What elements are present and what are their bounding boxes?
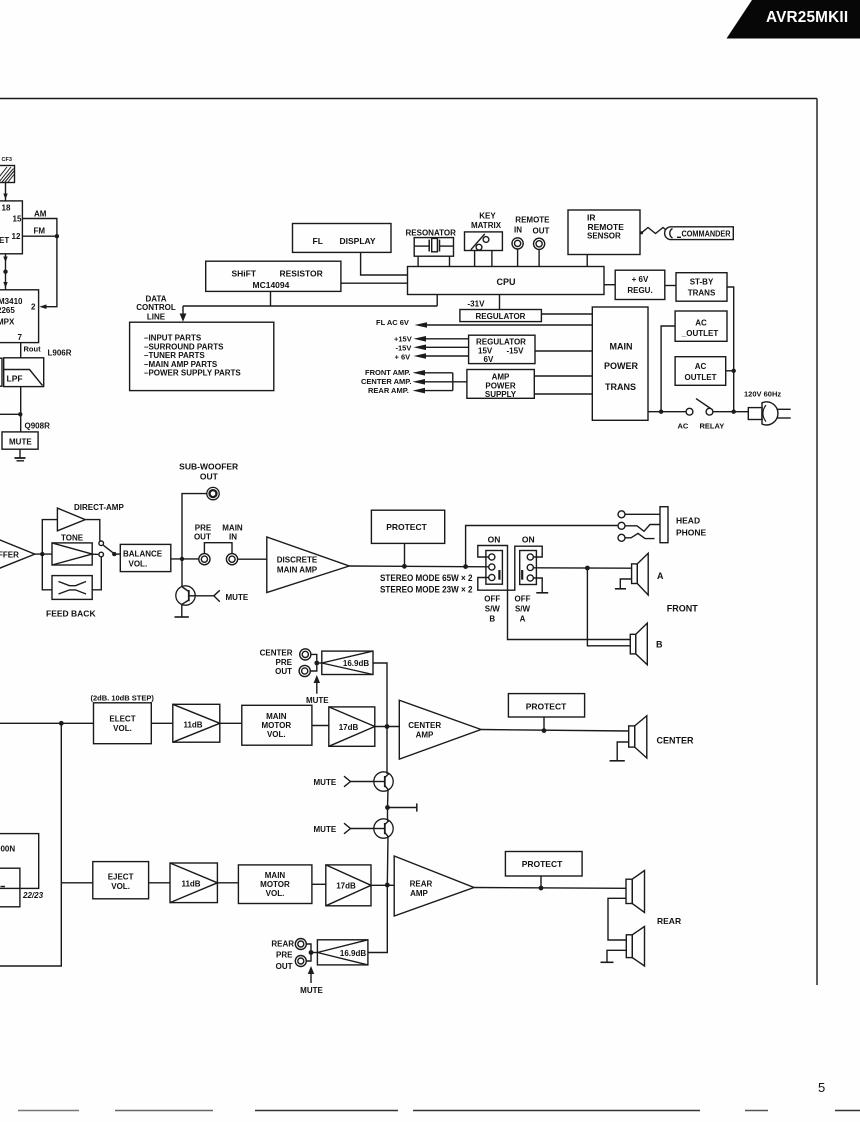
svg-text:FL: FL [313, 236, 323, 246]
svg-text:IN: IN [514, 225, 522, 234]
svg-text:MATRIX: MATRIX [471, 221, 502, 230]
svg-text:ON: ON [488, 535, 501, 545]
svg-text:PHONE: PHONE [676, 527, 707, 537]
wire q1 to junction [387, 790, 390, 808]
speaker REAR 2 [626, 927, 644, 967]
svg-text:FRONT: FRONT [667, 603, 698, 613]
svg-text:OUT: OUT [194, 533, 211, 542]
svg-text:L906R: L906R [48, 349, 72, 358]
svg-text:EJECT: EJECT [108, 873, 134, 882]
border frame right line [816, 99, 818, 986]
svg-text:DISCRETE: DISCRETE [277, 555, 318, 564]
head phone label [676, 515, 707, 537]
svg-text:REMOTE: REMOTE [588, 222, 625, 232]
ceramic filter CF3 [0, 166, 15, 183]
wire elect vol to 11dB [151, 722, 173, 724]
transistor mute Q1 [374, 772, 393, 791]
svg-text:S/W: S/W [515, 604, 531, 613]
wire FM pin12 [22, 235, 57, 237]
node stereo mode labels [380, 573, 473, 595]
protect block center [508, 694, 584, 717]
attenuator 16.9dB rear [317, 940, 368, 965]
junction between mutes [385, 805, 390, 810]
svg-text:AMP: AMP [492, 372, 510, 381]
wire LPF to mute [20, 387, 22, 432]
wire mute q1 control with chevron [344, 776, 374, 787]
svg-text:OUT: OUT [276, 962, 293, 971]
wire junction test tap [388, 803, 417, 811]
remote commander unit [665, 227, 734, 240]
svg-text:SENSOR: SENSOR [587, 231, 621, 240]
wire +6V regu to st-by trans [665, 285, 676, 287]
wire speaker A ground branch [620, 579, 631, 588]
transformer MAIN POWER TRANS [592, 307, 648, 420]
svg-text:AMP: AMP [416, 730, 434, 739]
surround IC second box (cut off) [0, 868, 20, 907]
wire balance node down to mute transistor [181, 559, 183, 587]
wire remote out to CPU [538, 249, 540, 266]
svg-text:AC: AC [695, 362, 707, 371]
svg-text:CF3: CF3 [2, 157, 12, 163]
svg-text:PROTECT: PROTECT [386, 522, 427, 532]
svg-text:+ 6V: + 6V [632, 275, 649, 284]
shift register MC14094 [206, 261, 341, 291]
wire +6V with arrow [414, 353, 469, 359]
wire data control line [183, 305, 437, 307]
off s/w b label [484, 594, 500, 623]
amp 17dB center [329, 707, 375, 746]
svg-text:S/W: S/W [485, 604, 501, 613]
wire center amp output [481, 730, 629, 732]
wire 11dB to motor vol rear [217, 882, 238, 884]
wire direct amp to switch [85, 520, 100, 541]
svg-text:RESONATOR: RESONATOR [406, 229, 457, 238]
svg-text:RELAY: RELAY [700, 421, 725, 430]
svg-text:MUTE: MUTE [9, 438, 32, 447]
wire shift register to CPU [341, 282, 408, 284]
remote in/out labels [514, 215, 550, 235]
svg-text:MUTE: MUTE [306, 696, 329, 705]
svg-text:–MAIN AMP PARTS: –MAIN AMP PARTS [144, 360, 218, 369]
svg-text:A: A [657, 571, 664, 581]
svg-text:REGULATOR: REGULATOR [476, 337, 526, 346]
wire junction down to speaker B [587, 568, 630, 646]
svg-text:DIRECT-AMP: DIRECT-AMP [74, 503, 124, 512]
wire amp supply bracket [452, 373, 454, 391]
svg-text:CPU: CPU [496, 277, 515, 287]
svg-text:HEAD: HEAD [676, 515, 700, 525]
svg-text:2: 2 [31, 303, 36, 312]
wire switch A on-bracket [508, 546, 543, 590]
microprocessor CPU [408, 267, 605, 295]
wire to feedback [42, 554, 52, 590]
svg-text:CENTER: CENTER [408, 721, 441, 730]
wire amp supply to main trans upper [534, 375, 592, 377]
wire zigzag IR link to commander [640, 228, 666, 235]
op-amp direct amp [57, 508, 85, 531]
svg-text:MAIN: MAIN [266, 712, 287, 721]
ground below mute [15, 449, 26, 461]
svg-text:OUT: OUT [533, 226, 550, 235]
mute arrow center pre [306, 675, 329, 705]
svg-text:PROTECT: PROTECT [526, 702, 567, 712]
svg-text:POWER: POWER [485, 381, 515, 390]
jack REMOTE OUT [534, 238, 545, 249]
wire resonator to CPU left [417, 256, 419, 266]
svg-text:POWER: POWER [604, 361, 639, 371]
model label AVR25MKII [727, 0, 860, 39]
wire motor vol to 17dB rear [312, 883, 326, 885]
svg-text:SUPPLY: SUPPLY [485, 390, 517, 399]
svg-text:MUTE: MUTE [226, 593, 249, 602]
svg-text:ET: ET [0, 236, 9, 245]
svg-text:-31V: -31V [468, 299, 486, 308]
wire switch A to speaker A [533, 567, 631, 569]
wire main in to amp [238, 558, 267, 560]
wire transistor to ground [181, 604, 183, 616]
volume ELECT VOL. [94, 703, 152, 744]
svg-text:MUTE: MUTE [300, 986, 323, 995]
junction protect center [542, 728, 547, 733]
transistor mute Q2 [374, 819, 393, 838]
svg-text:22/23: 22/23 [22, 891, 44, 900]
feedback block [52, 576, 92, 600]
power supply AMP POWER SUPPLY [467, 370, 534, 400]
svg-text:16.9dB: 16.9dB [343, 659, 369, 668]
svg-text:15: 15 [13, 215, 22, 224]
wire motor vol to 17dB [312, 725, 329, 727]
svg-text:B: B [489, 614, 495, 623]
protect block rear [505, 852, 582, 877]
wire protect to output [404, 543, 406, 566]
wire tuner IC to MPX with arrows [3, 254, 7, 290]
ground rear speaker [601, 961, 614, 963]
svg-text:(2dB. 10dB STEP): (2dB. 10dB STEP) [91, 693, 155, 702]
wire left bus down [0, 723, 61, 966]
junction outlet branch [659, 410, 663, 414]
wire subwoofer to balance node [182, 494, 207, 559]
junction headphone branch [463, 564, 468, 569]
wire arrow into parts box [180, 306, 187, 322]
svg-text:LINE: LINE [147, 312, 166, 321]
wire amp supply to main trans lower [534, 393, 592, 395]
svg-text:17dB: 17dB [339, 723, 359, 732]
ground speaker A [615, 588, 626, 590]
second LPF box (cut off at edge) [0, 358, 2, 386]
svg-text:ELECT: ELECT [109, 715, 135, 724]
speaker CENTER [629, 716, 647, 758]
AC plug [748, 402, 790, 425]
junction main vertical / center amp [385, 724, 390, 729]
svg-text:–POWER SUPPLY PARTS: –POWER SUPPLY PARTS [144, 369, 241, 378]
svg-text:TRANS: TRANS [605, 382, 636, 392]
key matrix label [471, 212, 502, 230]
transistor front mute [176, 586, 195, 605]
wire front amp arrow [413, 370, 453, 376]
volume BALANCE VOL. [120, 544, 171, 571]
data control parts list box [130, 322, 274, 390]
border frame top line [0, 98, 817, 100]
svg-text:–SURROUND PARTS: –SURROUND PARTS [144, 342, 224, 351]
svg-text:+15V: +15V [394, 334, 412, 343]
wire regulator to main trans [535, 350, 592, 352]
svg-text:16.9dB: 16.9dB [340, 949, 366, 958]
jack PRE OUT [199, 554, 210, 565]
wire eject vol to 11dB [149, 882, 170, 884]
wire balance to pre out [171, 558, 199, 560]
svg-text:AVR25MKII: AVR25MKII [766, 9, 848, 26]
svg-text:7: 7 [18, 333, 23, 342]
svg-text:REMOTE: REMOTE [515, 215, 550, 224]
switch direct/tone [99, 541, 114, 557]
wire FL display to CPU [361, 252, 408, 275]
svg-text:FFER: FFER [0, 550, 19, 559]
tone control block [52, 543, 92, 565]
svg-text:Rout: Rout [24, 345, 42, 354]
wire key matrix to CPU left [474, 251, 476, 267]
ground front mute [175, 616, 189, 618]
center pre out labels [260, 649, 293, 676]
svg-text:_OUTLET: _OUTLET [681, 329, 719, 338]
ac outlet upper [675, 311, 727, 341]
junction subwoofer/mute node [180, 557, 184, 561]
svg-text:VOL.: VOL. [267, 730, 286, 739]
svg-text:IN: IN [229, 533, 237, 542]
wire -15V with arrow [414, 345, 469, 351]
wire st-by trans to AC line [727, 287, 734, 412]
wire junction to mute Q2 [387, 808, 389, 821]
wire resonator to CPU right [449, 256, 451, 266]
wire center speaker ground branch [617, 742, 629, 760]
svg-text:11dB: 11dB [181, 880, 200, 889]
wire to direct-amp [42, 520, 57, 555]
wire CPU to -31V regulator [499, 295, 501, 310]
jack rear pre out lower [295, 956, 306, 967]
wire q2 down rear section [386, 837, 389, 885]
wire jacks to attenuator [310, 654, 321, 671]
svg-text:DISPLAY: DISPLAY [340, 236, 376, 246]
svg-text:REAR AMP.: REAR AMP. [368, 386, 409, 395]
wire headphone tip [625, 513, 660, 515]
volume EJECT VOL. [93, 862, 149, 899]
svg-text:VOL.: VOL. [266, 889, 285, 898]
svg-text:000N: 000N [0, 844, 15, 853]
wire FL AC 6V with arrow [415, 322, 593, 328]
svg-text:AC: AC [678, 421, 689, 430]
wire main amp output [349, 565, 489, 568]
wire main vertical to mute Q1 [386, 727, 388, 774]
amp 11dB rear [170, 863, 217, 903]
svg-text:VOL.: VOL. [129, 560, 148, 569]
svg-text:MC14094: MC14094 [253, 280, 290, 290]
ground switch A [536, 592, 548, 594]
svg-text:MAIN: MAIN [610, 342, 633, 352]
wire shift register to data line [270, 291, 272, 306]
svg-text:-15V: -15V [396, 343, 412, 352]
junction center pre node [314, 661, 319, 666]
junction st-by/outlet [732, 369, 736, 373]
ac outlet lower [675, 357, 726, 386]
svg-text:MAIN: MAIN [222, 523, 243, 532]
speaker A [632, 553, 649, 595]
svg-text:TONE: TONE [61, 533, 84, 542]
wire relay to plug [713, 411, 748, 413]
svg-text:17dB: 17dB [336, 882, 356, 891]
protect block front [371, 510, 444, 543]
wire -31V regulator to main trans [541, 313, 592, 315]
svg-text:FM: FM [34, 227, 46, 236]
svg-text:–INPUT PARTS: –INPUT PARTS [144, 334, 202, 343]
op-amp buffer (cut off) [0, 530, 35, 579]
wire center amp arrow [413, 379, 467, 385]
svg-text:OFF: OFF [515, 594, 531, 603]
wire feedback to tone node [92, 557, 101, 590]
wire rear speaker 2 ground branch [607, 950, 626, 962]
junction protect rear [539, 886, 544, 891]
junction switch common [112, 552, 116, 556]
jack rear pre out upper [295, 939, 306, 950]
node DATA CONTROL LINE label [136, 294, 176, 321]
svg-text:FRONT AMP.: FRONT AMP. [365, 368, 410, 377]
wire IR sensor to CPU [586, 255, 588, 267]
jack SUB-WOOFER OUT [207, 487, 219, 499]
svg-text:IR: IR [587, 212, 596, 222]
speaker REAR 1 [626, 871, 645, 913]
pre out / main in labels [194, 523, 243, 541]
wire protect center drop [543, 717, 545, 731]
jack headphone contacts [618, 511, 625, 542]
svg-text:18: 18 [2, 204, 11, 213]
wire +15V with arrow [414, 336, 469, 342]
wire from page edge to mute node [0, 413, 21, 415]
wire headphone contact spring lower [625, 533, 655, 538]
wire mute control with chevron [195, 590, 220, 601]
jack center pre out lower [299, 665, 310, 676]
speaker B [630, 623, 647, 665]
wire pre out to main in jumper [204, 543, 232, 554]
wire CPU to data line [436, 295, 438, 307]
svg-text:OUT: OUT [275, 667, 292, 676]
svg-text:AMP: AMP [410, 889, 428, 898]
rear pre out labels [271, 939, 294, 971]
svg-text:AM: AM [34, 210, 47, 219]
junction protect node [402, 564, 407, 569]
switch speaker A [520, 551, 537, 585]
mute arrow rear pre [300, 966, 323, 995]
amp 17dB rear [326, 865, 371, 906]
svg-text:OUT: OUT [200, 471, 219, 481]
wire rear attenuator to main vertical [368, 885, 387, 953]
svg-text:6V: 6V [484, 355, 494, 364]
wire switch B on-bracket [478, 546, 508, 591]
regulator 15V/-15V/6V [469, 335, 535, 364]
op-amp DISCRETE MAIN AMP [267, 537, 349, 593]
mute block Q908R [2, 432, 38, 449]
wire MPX pin7 to LPF [20, 343, 22, 358]
wire AC mains line [648, 411, 686, 413]
wire to balance vol [114, 553, 120, 555]
wire switch A ground pin [533, 578, 542, 592]
svg-text:RESISTOR: RESISTOR [280, 269, 323, 279]
svg-text:CONTROL: CONTROL [136, 303, 176, 312]
svg-text:MAIN AMP: MAIN AMP [277, 565, 318, 574]
wire key matrix to CPU right [491, 251, 493, 267]
svg-text:M3410: M3410 [0, 297, 23, 306]
svg-text:REGU.: REGU. [627, 286, 652, 295]
junction rear pre node [309, 950, 314, 955]
junction on tuner wire [3, 270, 7, 274]
wire CF3 to tuner IC with arrow [3, 183, 7, 201]
low-pass filter L906R [4, 358, 44, 387]
op-amp REAR AMP [394, 856, 474, 916]
surround DSP IC (cut off) [0, 834, 39, 889]
svg-text:VOL.: VOL. [113, 724, 132, 733]
junction main vertical / rear amp [385, 883, 390, 888]
svg-text:STEREO MODE 23W × 2: STEREO MODE 23W × 2 [380, 585, 473, 595]
wire headphone feed [466, 526, 618, 567]
wire to MPX pin2 with arrow [39, 236, 57, 309]
cut mark dashed line [18, 1110, 860, 1112]
wire buffer node [35, 553, 52, 555]
volume MAIN MOTOR VOL. center [242, 705, 312, 745]
junction buffer output [40, 552, 44, 556]
wire rear amp arrow [413, 388, 453, 394]
svg-text:MUTE: MUTE [314, 825, 337, 834]
wire rear jacks to attenuator [306, 944, 317, 961]
wire 17dB to rear amp [371, 884, 394, 886]
svg-text:PRE: PRE [195, 523, 212, 532]
relay AC RELAY [678, 399, 725, 431]
svg-text:REAR: REAR [657, 916, 681, 926]
switch speaker B [486, 551, 503, 585]
svg-text:KEY: KEY [479, 212, 496, 221]
wire AM pin15 [22, 219, 57, 237]
svg-text:SUB-WOOFER: SUB-WOOFER [179, 461, 238, 471]
wire headphone contact spring upper [625, 525, 660, 532]
wire bus to eject vol [61, 882, 93, 884]
svg-text:COMMANDER: COMMANDER [682, 230, 731, 239]
svg-text:REGULATOR: REGULATOR [476, 312, 526, 321]
svg-text:12: 12 [12, 232, 21, 241]
svg-text:MPX: MPX [0, 318, 15, 327]
svg-text:PROTECT: PROTECT [522, 859, 563, 869]
off s/w a label [515, 594, 531, 623]
svg-text:MAIN: MAIN [265, 871, 286, 880]
svg-text:ST-BY: ST-BY [690, 277, 714, 286]
wire rear amp output [474, 887, 626, 890]
junction mute node [18, 412, 22, 416]
svg-text:DATA: DATA [145, 294, 166, 303]
junction speaker A branch [585, 566, 590, 571]
svg-text:B: B [656, 639, 663, 649]
wire 17dB to center amp [375, 726, 400, 728]
jack REMOTE IN [512, 238, 523, 249]
svg-text:PRE: PRE [276, 951, 293, 960]
FL display U-FL [293, 224, 392, 253]
svg-text:SHiFT: SHiFT [232, 269, 257, 279]
IR remote sensor [568, 210, 640, 255]
wire remote in to CPU [517, 249, 519, 267]
svg-text:PRE: PRE [276, 658, 293, 667]
wire rear speaker link [608, 898, 626, 940]
svg-text:5: 5 [818, 1080, 825, 1095]
junction st-by drop on mains [732, 410, 736, 414]
headphone jack body [660, 507, 668, 543]
resonator X1 [414, 238, 453, 257]
svg-text:120V 60Hz: 120V 60Hz [744, 389, 781, 398]
svg-text:-15V: -15V [507, 346, 525, 355]
svg-text:15V: 15V [478, 346, 493, 355]
